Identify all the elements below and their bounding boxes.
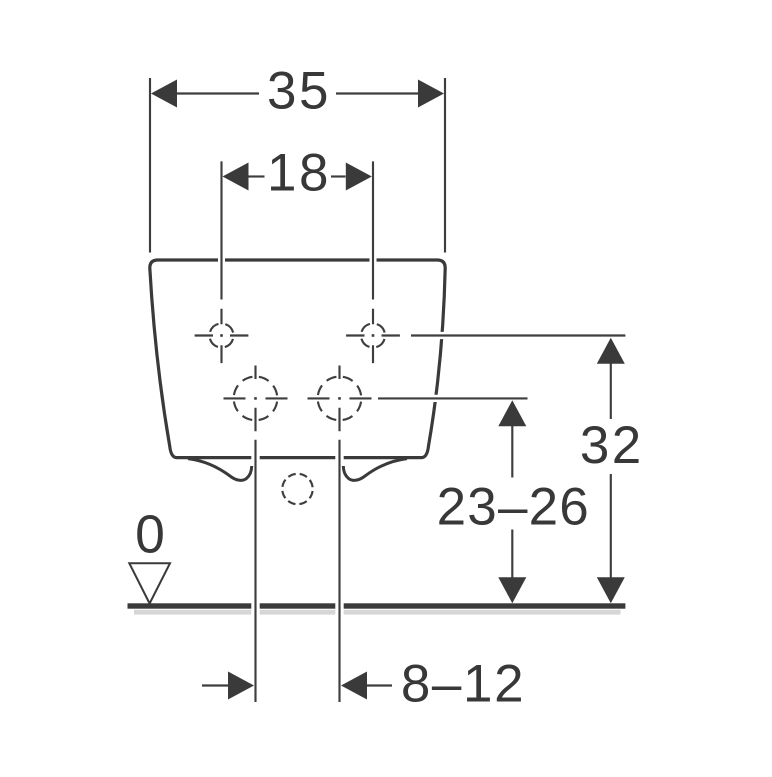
- dim 35 extension line left: [149, 78, 151, 253]
- drain dashed circle: [282, 474, 312, 504]
- hole S2 centerline vertical: [372, 161, 374, 363]
- dim 23-26 line: [511, 426, 513, 578]
- dim 32 arrow down: [597, 577, 625, 603]
- dim 8-12 line right: [367, 684, 393, 686]
- svg-text:18: 18: [267, 144, 331, 203]
- dim 23-26 arrow up: [498, 400, 526, 426]
- dim 8-12 arrow left: [341, 672, 367, 700]
- dim 23-26 arrow down: [498, 577, 526, 603]
- dim 35 arrow right: [418, 80, 444, 108]
- reference line large holes to dim 23-26: [378, 397, 528, 399]
- dim 35 arrow left: [151, 80, 177, 108]
- left foot curve: [188, 459, 252, 481]
- right foot curve: [343, 459, 407, 481]
- hole L2 centerline horizontal: [308, 397, 372, 399]
- svg-text:35: 35: [267, 62, 331, 121]
- ground line: [128, 603, 626, 608]
- dim 18 arrow left: [223, 163, 249, 191]
- hole S2 dashed circle: [361, 324, 385, 348]
- dim 8-12 line left: [202, 684, 229, 686]
- hole S1 centerline vertical: [220, 161, 222, 363]
- hole L2 dashed circle: [318, 377, 362, 421]
- dim 18 line: [249, 175, 265, 177]
- hole L1 centerline horizontal: [224, 397, 288, 399]
- dim 35 line: [177, 92, 259, 94]
- hole S1 centerline horizontal: [195, 334, 249, 336]
- hole L2 centerline vertical: [338, 366, 340, 703]
- dim 18 arrow right: [346, 163, 372, 191]
- reference line small holes to dim 32: [411, 334, 625, 336]
- ground shadow: [134, 610, 621, 615]
- hole L1 centerline vertical: [254, 366, 256, 703]
- dim 32 arrow up: [597, 338, 625, 364]
- dim 8-12 arrow right: [228, 672, 254, 700]
- zero level triangle: [129, 563, 170, 603]
- hole S2 centerline horizontal: [346, 334, 400, 336]
- hole L1 dashed circle: [234, 377, 278, 421]
- white halos cutting thick lines where thin lines cross: [194, 160, 626, 703]
- svg-text:0: 0: [135, 506, 165, 565]
- dim 32 line: [610, 364, 612, 579]
- hole S1 dashed circle: [210, 324, 234, 348]
- svg-text:23–26: 23–26: [437, 478, 590, 537]
- svg-text:32: 32: [580, 416, 644, 475]
- arrows: [151, 80, 625, 700]
- svg-text:8–12: 8–12: [401, 655, 525, 714]
- thin lines: [150, 78, 625, 702]
- dim 35 extension line right: [444, 78, 446, 253]
- bidet body outline: [150, 260, 445, 458]
